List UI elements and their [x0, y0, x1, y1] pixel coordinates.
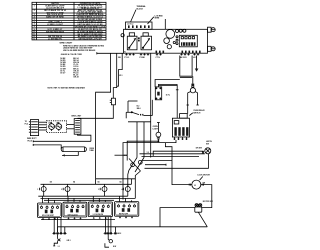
- X out rails: [115, 152, 205, 166]
- infinite switch SW1: [38, 196, 62, 220]
- relay terminals: [174, 137, 188, 140]
- wire to latch: [153, 151, 203, 156]
- rail 2: [33, 144, 61, 149]
- burner rails: [38, 196, 135, 200]
- wire latch to motor loop: [145, 154, 209, 185]
- svg-text:7: 7: [34, 24, 35, 26]
- svg-text:GR-18: GR-18: [73, 77, 78, 79]
- svg-text:SWITCH: SWITCH: [193, 113, 201, 115]
- selector pilot column: [176, 36, 178, 38]
- svg-text:WIRE CHART: WIRE CHART: [60, 42, 74, 45]
- svg-text:SW: SW: [206, 144, 209, 146]
- svg-text:Y-2: Y-2: [147, 152, 150, 154]
- right edge plug P1: [208, 27, 216, 32]
- control console box: [124, 29, 208, 53]
- tiny dial: [173, 41, 175, 43]
- wire switch left: [160, 208, 195, 227]
- svg-text:BK W R: BK W R: [180, 57, 187, 59]
- svg-text:2: 2: [34, 10, 35, 12]
- svg-text:L1 N L2: L1 N L2: [127, 23, 133, 25]
- svg-text:3: 3: [98, 189, 99, 191]
- broil lamp 1: [49, 122, 55, 131]
- svg-text:P1 L1: P1 L1: [125, 57, 130, 59]
- relay label: [189, 109, 205, 115]
- svg-text:P2 BK: P2 BK: [140, 57, 146, 59]
- plug connector J1: [25, 120, 39, 143]
- clock dial: [166, 30, 175, 39]
- wires box to element: [67, 125, 75, 129]
- main burner rail: [41, 179, 132, 185]
- svg-text:WH PU OFF: WH PU OFF: [119, 214, 128, 216]
- contact pair: [138, 37, 140, 39]
- svg-text:CT N: CT N: [156, 57, 161, 59]
- selector switch block: [179, 35, 197, 47]
- svg-text:16 YL: 16 YL: [166, 94, 170, 96]
- terminal block TB1: [126, 22, 153, 29]
- upper burner rail: [96, 178, 136, 180]
- svg-text:BK-6: BK-6: [137, 108, 141, 110]
- svg-text:2: 2: [61, 189, 62, 191]
- wire labels: [118, 51, 126, 77]
- svg-text:UNIT ELEM SW L2 PU WH: UNIT ELEM SW L2 PU WH: [78, 39, 102, 41]
- lock motor M1: [189, 175, 210, 190]
- wire crossing X: [128, 158, 144, 199]
- wire A down: [96, 53, 111, 184]
- svg-text:DR SW: DR SW: [196, 147, 202, 149]
- corner wire: [128, 101, 138, 112]
- connector squares 2: [104, 232, 118, 234]
- svg-text:GR-1: GR-1: [67, 240, 71, 242]
- svg-text:WIRE: WIRE: [155, 18, 160, 20]
- ground label 2: [117, 233, 121, 235]
- surface unit E3: [98, 184, 107, 196]
- lamp labels: [48, 122, 60, 124]
- double wire to relay: [159, 84, 179, 118]
- connector squares 1: [52, 232, 67, 234]
- cluster 1 tails: [53, 234, 60, 248]
- wire C staircase: [117, 53, 123, 86]
- motor switch S3: [195, 201, 213, 212]
- svg-text:L2 MED L2 LIGHT: L2 MED L2 LIGHT: [47, 24, 64, 26]
- U loop wire: [180, 56, 192, 78]
- switch feed component: [155, 87, 170, 100]
- terminal block labels: [131, 5, 166, 29]
- broil lamp 2: [56, 122, 62, 131]
- wire switch to bottom rail: [198, 212, 207, 227]
- ground stub: [195, 56, 199, 72]
- infinite switch SW3: [88, 196, 112, 219]
- terminal labels: [125, 57, 198, 59]
- svg-text:L1 SW MED PU: L1 SW MED PU: [48, 39, 62, 41]
- oven relay K1: [172, 114, 189, 137]
- svg-text:CLOCK WH BK OFF: CLOCK WH BK OFF: [46, 8, 65, 10]
- right edge plug P2: [208, 46, 216, 51]
- wires plug to broiler: [39, 122, 47, 130]
- bottom terminal row inside box: [156, 51, 201, 53]
- drops to cluster 2: [106, 216, 116, 232]
- wire pair label: [124, 155, 127, 157]
- svg-text:GR-2: GR-2: [117, 233, 121, 235]
- small dial: [167, 45, 171, 49]
- wire motor right down: [201, 185, 212, 208]
- svg-text:NOTE: REF. TO MAYTAG WIRING DI: NOTE: REF. TO MAYTAG WIRING DIAGRAM: [48, 86, 86, 89]
- infinite switch S1: [127, 33, 137, 50]
- long feed wire: [150, 53, 152, 157]
- svg-text:LIGHT: LIGHT: [153, 128, 159, 130]
- surface unit E1: [37, 184, 46, 196]
- infinite switch SW2: [63, 196, 87, 219]
- svg-text:USE 14 GA WIRE RATED FOR RANGE: USE 14 GA WIRE RATED FOR RANGE: [63, 49, 96, 52]
- svg-text:L1: L1: [58, 246, 60, 248]
- below switch rail: [41, 219, 115, 221]
- svg-text:13: 13: [33, 38, 35, 40]
- lower double wire: [128, 121, 151, 123]
- infinite switch SW4: [115, 196, 139, 218]
- svg-text:SW L1 BK UNIT: SW L1 BK UNIT: [42, 215, 54, 217]
- wire chart notes: [48, 42, 105, 90]
- surface unit E2: [61, 184, 70, 196]
- switch operation table: [32, 2, 106, 40]
- ground label 1: [67, 240, 71, 242]
- drops to cluster 1: [54, 217, 65, 232]
- left edge connector: [121, 34, 124, 37]
- broiler dashed box: [46, 121, 66, 133]
- wire relay to left: [123, 140, 176, 200]
- svg-text:3: 3: [34, 14, 35, 16]
- svg-text:GAUGE & COLOR CODE: GAUGE & COLOR CODE: [61, 53, 83, 56]
- table text: [33, 2, 105, 41]
- svg-text:W-1: W-1: [119, 75, 122, 77]
- surface unit E4: [122, 184, 131, 196]
- timer dial: [164, 38, 170, 44]
- svg-text:N-W: N-W: [113, 246, 117, 248]
- infinite switch S2: [141, 33, 152, 50]
- oven lamp G1: [187, 76, 199, 113]
- svg-text:LOCK MOTOR: LOCK MOTOR: [198, 175, 211, 177]
- wire element bottom: [78, 134, 91, 141]
- relay step wire: [165, 143, 172, 169]
- console bottom terminals: [125, 53, 199, 55]
- door latch switch: [196, 140, 213, 154]
- rail 1: [33, 140, 91, 142]
- indicator lamps: [176, 30, 179, 33]
- svg-text:MOTOR SW: MOTOR SW: [203, 201, 213, 203]
- svg-text:L2 16 WH WH: L2 16 WH WH: [93, 214, 104, 216]
- svg-text:SW RED RED BAKE: SW RED RED BAKE: [46, 30, 65, 33]
- wire L1 rail: [97, 52, 124, 54]
- svg-text:PLUG: PLUG: [28, 140, 33, 142]
- lever switch SC2: [126, 105, 152, 118]
- svg-text:BROIL UNIT: BROIL UNIT: [72, 116, 83, 118]
- oven vent tube: [61, 147, 95, 152]
- broil element R1: [72, 116, 83, 135]
- cluster 2 tails: [105, 234, 117, 248]
- svg-text:BLOCK: BLOCK: [137, 8, 144, 10]
- hook wire: [155, 80, 180, 87]
- svg-text:1: 1: [34, 5, 35, 7]
- svg-text:18 GY: 18 GY: [60, 73, 66, 75]
- svg-text:4: 4: [122, 188, 123, 191]
- svg-text:BAKE OR OR WIRE: BAKE OR OR WIRE: [46, 16, 64, 19]
- arrow wire: [62, 152, 78, 157]
- wire B with fuse: [78, 53, 117, 118]
- svg-text:1: 1: [37, 189, 38, 191]
- long bottom rail: [58, 227, 208, 232]
- svg-text:ON N CLOCK: ON N CLOCK: [68, 214, 79, 216]
- X feed wires: [137, 122, 144, 158]
- oven light L2: [127, 123, 161, 161]
- short feed wire: [151, 100, 153, 116]
